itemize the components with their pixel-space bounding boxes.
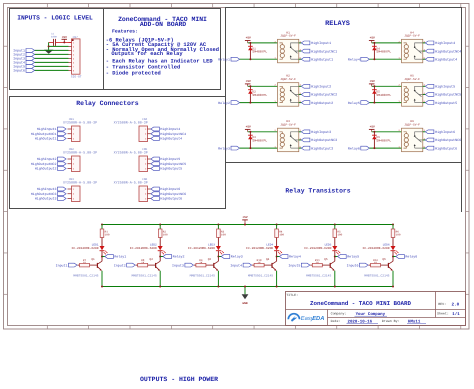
junction bottom rail unit 2 (159, 286, 161, 288)
svg-text:Relay6: Relay6 (348, 146, 360, 150)
svg-text:SM4007PL: SM4007PL (376, 138, 391, 142)
svg-text:100: 100 (105, 234, 110, 237)
wire Input5 port to R11 (310, 264, 312, 266)
junction +5V tap (63, 41, 65, 43)
junction diode D1 anode (249, 58, 251, 60)
pin 2 of CN3 (68, 193, 72, 195)
port HighInput2 (relay output) (301, 84, 310, 88)
wire +5V to relay K4 coil pin 2 (372, 42, 402, 44)
wire rail to resistor R1 (101, 225, 103, 230)
diode D1 SM4007PL (249, 43, 251, 59)
pin 2 of CN1 (68, 133, 72, 135)
wire node to Relay5 port (335, 256, 338, 258)
svg-text:HighOutputNC2: HighOutputNC2 (31, 162, 57, 166)
svg-text:ZoneCommand - TACO MINI BOARD: ZoneCommand - TACO MINI BOARD (310, 300, 411, 307)
svg-text:HighOutput2: HighOutput2 (311, 101, 333, 106)
port HighInput6 (relay output) (425, 130, 434, 134)
svg-text:Input4: Input4 (230, 263, 242, 267)
junction collector node 3 (217, 256, 219, 258)
title block frame (286, 292, 466, 326)
wire node to Relay3 port (218, 256, 221, 258)
wire relay K6 to HighInput6 (423, 131, 426, 133)
wire resistor R3 to LED3 (217, 238, 219, 247)
pin 2 of CN2 (68, 163, 72, 165)
pin 1 of CN1 (68, 128, 72, 130)
wire node to Relay4 port (277, 256, 280, 258)
svg-text:MMBT5501_C2145: MMBT5501_C2145 (248, 275, 273, 278)
svg-text:XY2500R-A-5.00-3P: XY2500R-A-5.00-3P (63, 120, 97, 125)
wire LED2 to collector node (159, 251, 161, 262)
wire emitter Q6 to ground rail (392, 271, 394, 287)
svg-text:+5V: +5V (370, 37, 375, 40)
wire CN7 pin2 to ground (49, 45, 69, 47)
junction diode D3 cathode (249, 131, 251, 133)
wire emitter Q2 to ground rail (159, 271, 161, 287)
svg-text:Relay5: Relay5 (348, 101, 360, 105)
port HighOutput5 (to CN5) (151, 167, 160, 171)
svg-text:HighOutput5: HighOutput5 (435, 101, 457, 106)
junction collector node 1 (101, 256, 103, 258)
svg-text:1/1: 1/1 (452, 312, 460, 317)
svg-text:Q5: Q5 (324, 258, 328, 261)
resistor R5 100 (333, 229, 337, 238)
port HighInput3 (relay output) (301, 130, 310, 134)
junction diode D4 cathode (373, 42, 375, 44)
svg-text:100: 100 (221, 234, 226, 237)
wire +5V to relay K5 coil pin 2 (372, 85, 402, 87)
svg-text:TITLE:: TITLE: (286, 293, 298, 297)
junction diode D6 cathode (373, 131, 375, 133)
svg-text:JQ1P-5V-F: JQ1P-5V-F (404, 34, 420, 37)
port HighInput5 (relay output) (425, 84, 434, 88)
wire Input3 port to R9 (194, 264, 196, 266)
wire ground bottom rail (102, 286, 393, 288)
svg-text:Relay Transistors: Relay Transistors (285, 187, 350, 194)
port Relay5 (transistor output) (338, 255, 347, 259)
svg-text:HighOutputNC6: HighOutputNC6 (435, 138, 461, 143)
wire LED6 to collector node (392, 251, 394, 262)
wire relay K2 to HighOutputNC2 (299, 93, 302, 95)
svg-text:HighOutputNC1: HighOutputNC1 (31, 132, 57, 136)
resistor R4 100 (275, 229, 279, 238)
port HighOutput4 (relay output) (425, 57, 434, 61)
wire R9 to base Q3 (206, 264, 214, 266)
port HighOutputNC6 (relay output) (425, 138, 434, 142)
ground GND (inputs box) (44, 50, 53, 54)
wire Input2 port to R8 (136, 264, 138, 266)
junction ground node (48, 45, 50, 47)
svg-text:Input3: Input3 (172, 263, 184, 267)
port HighInput6 (to CN6) (151, 187, 160, 191)
svg-text:HighInput1: HighInput1 (311, 41, 331, 46)
svg-text:Features:: Features: (112, 28, 138, 34)
junction collector node 5 (334, 256, 336, 258)
wire +5V to relay K2 coil pin 2 (248, 85, 278, 87)
box INPUTS - LOGIC LEVEL section (10, 9, 104, 90)
svg-text:Relay2: Relay2 (218, 101, 230, 105)
wire LED5 to collector node (334, 251, 336, 262)
svg-text:JQ1P-5V-F: JQ1P-5V-F (280, 78, 296, 81)
svg-text:OUTPUTS - HIGH POWER: OUTPUTS - HIGH POWER (140, 376, 218, 383)
pin 2 of CN4 (148, 133, 151, 135)
port Relay1 (transistor output) (105, 255, 114, 259)
port HighOutputNC5 (relay output) (425, 93, 434, 97)
svg-text:HighOutputNC2: HighOutputNC2 (311, 93, 337, 98)
wire emitter Q3 to ground rail (217, 271, 219, 287)
pin 2 of CN5 (148, 163, 151, 165)
svg-text:ADD-ON BOARD: ADD-ON BOARD (140, 21, 186, 28)
wire R12 to base Q6 (381, 264, 389, 266)
junction top rail unit 6 (392, 224, 394, 226)
wire rail to resistor R6 (392, 225, 394, 230)
wire Relay6 port to relay K6 coil pin 1 (369, 147, 401, 149)
wire R7 to base Q1 (90, 264, 98, 266)
wire Input4 to CN7 pin6 (35, 61, 69, 63)
wire rail to resistor R4 (276, 225, 278, 230)
svg-text:HighOutputNC1: HighOutputNC1 (311, 49, 337, 54)
wire capacitor to ground bend (49, 41, 54, 43)
junction diode D6 anode (373, 147, 375, 149)
svg-text:HighOutput3: HighOutput3 (311, 146, 333, 151)
svg-text:HighOutputNC4: HighOutputNC4 (435, 49, 461, 54)
svg-text:XY2500R-A-5.00-3P: XY2500R-A-5.00-3P (63, 180, 97, 185)
junction top rail unit 4 (276, 224, 278, 226)
port HighOutput3 (relay output) (301, 146, 310, 150)
port HighInput4 (relay output) (425, 41, 434, 45)
port HighOutput6 (relay output) (425, 146, 434, 150)
junction collector node 6 (392, 256, 394, 258)
title block logo EasyEDA (288, 314, 324, 323)
svg-text:- Diode protected: - Diode protected (106, 70, 161, 76)
junction diode D2 anode (249, 102, 251, 104)
svg-text:SM4007PL: SM4007PL (252, 93, 267, 97)
wire relay K2 to HighOutput2 (299, 102, 302, 104)
wire rail to resistor R2 (159, 225, 161, 230)
svg-text:XY2500R-A-5.00-3P: XY2500R-A-5.00-3P (114, 180, 148, 185)
wire resistor R2 to LED2 (159, 238, 161, 247)
svg-text:MMBT5501_C2145: MMBT5501_C2145 (364, 275, 389, 278)
junction collector node 4 (276, 256, 278, 258)
svg-text:REV:: REV: (438, 302, 446, 306)
wire emitter Q5 to ground rail (334, 271, 336, 287)
box Relay Connectors section (10, 97, 226, 209)
svg-text:+5V: +5V (370, 80, 375, 83)
svg-text:HighInput3: HighInput3 (37, 187, 57, 191)
svg-text:EDA: EDA (312, 316, 324, 322)
port Relay6 (transistor output) (396, 255, 405, 259)
port HighOutput2 (relay output) (301, 101, 310, 105)
wire Relay1 port to relay K1 coil pin 1 (240, 58, 278, 60)
junction collector node 2 (159, 256, 161, 258)
svg-text:RELAYS: RELAYS (325, 20, 350, 28)
svg-text:HighInput3: HighInput3 (311, 130, 331, 135)
svg-text:MMBT5501_C2145: MMBT5501_C2145 (131, 275, 156, 278)
svg-text:HighOutputNC4: HighOutputNC4 (160, 132, 186, 136)
svg-text:MMBT5501_C2145: MMBT5501_C2145 (306, 275, 331, 278)
pin 1 of CN5 (148, 158, 151, 160)
wire relay K2 to HighInput2 (299, 85, 302, 87)
wire LED3 to collector node (217, 251, 219, 262)
wire resistor R6 to LED6 (392, 238, 394, 247)
port HighOutput6 (to CN6) (151, 197, 160, 201)
svg-text:Outputs for each Relay: Outputs for each Relay (111, 51, 183, 57)
svg-text:FC-2012HRK-620D: FC-2012HRK-620D (246, 247, 273, 250)
port HighOutput5 (relay output) (425, 101, 434, 105)
svg-text:Relay3: Relay3 (218, 146, 230, 150)
wire Relay3 port to relay K3 coil pin 1 (240, 147, 278, 149)
svg-text:Relay Connectors: Relay Connectors (76, 100, 139, 107)
wire resistor R5 to LED5 (334, 238, 336, 247)
svg-text:HighInput2: HighInput2 (37, 157, 57, 161)
svg-text:+5V: +5V (370, 126, 375, 129)
svg-text:Relay5: Relay5 (347, 255, 359, 259)
svg-text:Q6: Q6 (382, 258, 386, 261)
pin 1 of CN4 (148, 128, 151, 130)
wire relay K4 to HighInput4 (423, 42, 426, 44)
svg-text:HighOutputNC5: HighOutputNC5 (160, 162, 186, 166)
svg-text:XY2500R-A-5.00-3P: XY2500R-A-5.00-3P (114, 150, 148, 155)
port Relay3 (transistor output) (221, 255, 230, 259)
svg-text:JQ1P-5V-F: JQ1P-5V-F (280, 34, 296, 37)
svg-text:SM4007PL: SM4007PL (376, 93, 391, 97)
svg-text:Input6: Input6 (13, 69, 25, 73)
svg-text:100: 100 (337, 234, 342, 237)
svg-text:CN7: CN7 (73, 36, 78, 39)
wire relay K1 to HighOutputNC1 (299, 50, 302, 52)
port HighInput1 (relay output) (301, 41, 310, 45)
junction top rail unit 3 (217, 224, 219, 226)
wire relay K1 to HighInput1 (299, 42, 302, 44)
wire Input6 to CN7 pin8 (35, 69, 69, 71)
svg-text:SIG-8T: SIG-8T (71, 76, 82, 79)
junction top rail unit 5 (334, 224, 336, 226)
wire Input1 port to R7 (78, 264, 80, 266)
pin 2 of CN6 (148, 193, 151, 195)
svg-text:HighInput4: HighInput4 (435, 41, 455, 46)
wire relay K6 to HighOutputNC6 (423, 139, 426, 141)
pin 3 of CN5 (148, 168, 151, 170)
svg-text:JQ1P-5V-F: JQ1P-5V-F (404, 123, 420, 126)
svg-text:FC-2012HRK-620D: FC-2012HRK-620D (188, 247, 215, 250)
wire Input2 to CN7 pin4 (35, 53, 69, 55)
svg-text:GND: GND (242, 302, 247, 305)
svg-text:Relay1: Relay1 (218, 57, 230, 61)
wire Input5 to CN7 pin7 (35, 65, 69, 67)
diode D6 SM4007PL (373, 132, 375, 148)
wire +5V to relay K6 coil pin 2 (372, 131, 402, 133)
svg-text:Q1: Q1 (91, 258, 95, 261)
svg-text:HighInput2: HighInput2 (311, 85, 331, 90)
wire +5V top rail (102, 224, 393, 226)
svg-text:Input1: Input1 (56, 263, 68, 267)
svg-text:Q3: Q3 (208, 258, 212, 261)
port Relay4 (transistor output) (279, 255, 288, 259)
diode D2 SM4007PL (249, 86, 251, 102)
svg-text:FC-2012HRK-620D: FC-2012HRK-620D (363, 247, 390, 250)
wire +5V to relay K1 coil pin 2 (248, 42, 278, 44)
svg-text:Sheet:: Sheet: (437, 311, 449, 315)
wire relay K5 to HighInput5 (423, 85, 426, 87)
svg-text:+5V: +5V (62, 36, 67, 39)
svg-text:100: 100 (279, 234, 284, 237)
pin 1 of CN6 (148, 188, 151, 190)
wire relay K5 to HighOutput5 (423, 102, 426, 104)
svg-text:HighInput5: HighInput5 (435, 85, 455, 90)
svg-text:100: 100 (163, 234, 168, 237)
svg-text:XY2500R-A-5.00-3P: XY2500R-A-5.00-3P (114, 120, 148, 125)
junction diode D4 anode (373, 58, 375, 60)
svg-text:FC-2012HRK-620D: FC-2012HRK-620D (130, 247, 157, 250)
junction top rail unit 1 (101, 224, 103, 226)
svg-text:Input5: Input5 (288, 263, 300, 267)
svg-text:Relay6: Relay6 (405, 255, 417, 259)
wire rail to GND (244, 287, 246, 295)
svg-text:Relay4: Relay4 (289, 255, 301, 259)
svg-text:HighInput5: HighInput5 (160, 157, 180, 161)
svg-text:HighOutput1: HighOutput1 (311, 57, 333, 62)
svg-text:INPUTS - LOGIC LEVEL: INPUTS - LOGIC LEVEL (17, 14, 93, 21)
wire relay K6 to HighOutput6 (423, 147, 426, 149)
box Relay Transistors section (225, 163, 227, 209)
svg-text:+5V: +5V (246, 37, 251, 40)
wire node to Relay2 port (160, 256, 163, 258)
svg-text:SM4007PL: SM4007PL (252, 50, 267, 54)
pin 1 of CN2 (68, 158, 72, 160)
junction bottom rail unit 5 (334, 286, 336, 288)
svg-text:Relay3: Relay3 (231, 255, 243, 259)
resistor R6 100 (391, 229, 395, 238)
junction top rail unit 2 (159, 224, 161, 226)
wire Relay5 port to relay K5 coil pin 1 (369, 102, 401, 104)
svg-text:MMBT5501_C2145: MMBT5501_C2145 (73, 275, 98, 278)
svg-text:Input6: Input6 (347, 263, 359, 267)
wire relay K3 to HighOutputNC3 (299, 139, 302, 141)
svg-text:Input2: Input2 (114, 263, 126, 267)
junction bottom rail unit 1 (101, 286, 103, 288)
port HighOutputNC4 (to CN4) (151, 132, 160, 136)
svg-text:HighOutput2: HighOutput2 (35, 167, 57, 171)
wire R10 to base Q4 (264, 264, 272, 266)
wire resistor R4 to LED4 (276, 238, 278, 247)
port HighOutputNC5 (to CN5) (151, 162, 160, 166)
port HighOutputNC1 (relay output) (301, 49, 310, 53)
resistor R2 100 (158, 229, 162, 238)
wire relay K5 to HighOutputNC5 (423, 93, 426, 95)
wire R8 to base Q2 (148, 264, 156, 266)
svg-text:+5V: +5V (242, 216, 247, 219)
wire Input1 to CN7 pin3 (35, 49, 69, 51)
svg-text:+5V: +5V (246, 80, 251, 83)
junction bottom rail unit 6 (392, 286, 394, 288)
pin 3 of CN4 (148, 138, 151, 140)
wire LED1 to collector node (101, 251, 103, 262)
wire R11 to base Q5 (322, 264, 330, 266)
svg-text:HighOutputNC3: HighOutputNC3 (31, 192, 57, 196)
svg-text:HighOutput1: HighOutput1 (35, 137, 57, 141)
svg-text:HighOutput4: HighOutput4 (160, 137, 182, 141)
wire Input6 port to R12 (369, 264, 371, 266)
svg-text:Q4: Q4 (266, 258, 270, 261)
svg-text:Q2: Q2 (150, 258, 154, 261)
diode D4 SM4007PL (373, 43, 375, 59)
svg-text:2.0: 2.0 (452, 302, 460, 307)
wire LED4 to collector node (276, 251, 278, 262)
wire relay K3 to HighInput3 (299, 131, 302, 133)
wire emitter Q1 to ground rail (101, 271, 103, 287)
pin 3 of CN2 (68, 168, 72, 170)
junction bottom rail unit 4 (276, 286, 278, 288)
svg-text:JQ1P-5V-F: JQ1P-5V-F (280, 123, 296, 126)
port Relay2 (transistor output) (163, 255, 172, 259)
svg-text:SM4007PL: SM4007PL (376, 50, 391, 54)
wire rail to resistor R3 (217, 225, 219, 230)
port HighOutput4 (to CN4) (151, 137, 160, 141)
svg-text:SM4007PL: SM4007PL (252, 138, 267, 142)
wire Input3 to CN7 pin5 (35, 57, 69, 59)
svg-text:HighOutput3: HighOutput3 (35, 197, 57, 201)
wire relay K3 to HighOutput3 (299, 147, 302, 149)
resistor R3 100 (217, 229, 221, 238)
svg-text:HighOutput4: HighOutput4 (435, 57, 457, 62)
junction diode D3 anode (249, 147, 251, 149)
svg-text:XY2500R-A-5.00-3P: XY2500R-A-5.00-3P (63, 150, 97, 155)
svg-text:HighOutput6: HighOutput6 (160, 197, 182, 201)
svg-text:HighOutput5: HighOutput5 (160, 167, 182, 171)
port HighOutputNC3 (relay output) (301, 138, 310, 142)
wire Relay4 port to relay K4 coil pin 1 (369, 58, 401, 60)
wire rail to resistor R5 (334, 225, 336, 230)
svg-text:HighOutputNC5: HighOutputNC5 (435, 93, 461, 98)
wire emitter Q4 to ground rail (276, 271, 278, 287)
junction bottom rail unit 3 (217, 286, 219, 288)
svg-text:100n: 100n (51, 35, 58, 38)
svg-text:100: 100 (396, 234, 401, 237)
svg-text:+5V: +5V (246, 126, 251, 129)
junction diode D5 anode (373, 102, 375, 104)
port HighOutput1 (relay output) (301, 57, 310, 61)
diode D3 SM4007PL (249, 132, 251, 148)
junction +5V rail tap (244, 224, 246, 226)
port HighOutputNC2 (relay output) (301, 93, 310, 97)
wire relay K4 to HighOutput4 (423, 58, 426, 60)
wire node to Relay1 port (102, 256, 105, 258)
svg-text:HighOutput6: HighOutput6 (435, 146, 457, 151)
svg-text:HighOutputNC6: HighOutputNC6 (160, 192, 186, 196)
svg-text:Relay2: Relay2 (173, 255, 185, 259)
box ZoneCommand notes section (104, 9, 221, 90)
svg-text:Drawn By:: Drawn By: (382, 319, 400, 323)
port HighOutputNC4 (relay output) (425, 49, 434, 53)
svg-text:HighInput6: HighInput6 (435, 130, 455, 135)
wire relay K1 to HighOutput1 (299, 58, 302, 60)
wire resistor R1 to LED1 (101, 238, 103, 247)
port HighInput5 (to CN5) (151, 157, 160, 161)
svg-text:HighInput6: HighInput6 (160, 187, 180, 191)
pin 3 of CN1 (68, 138, 72, 140)
junction diode D1 cathode (249, 42, 251, 44)
wire +5V rail to CN7 pin1 (56, 41, 72, 43)
ground GND (transistor rail) (242, 294, 249, 299)
svg-text:Date:: Date: (331, 319, 341, 323)
pin 3 of CN6 (148, 198, 151, 200)
pin 3 of CN3 (68, 198, 72, 200)
port HighInput4 (to CN4) (151, 127, 160, 131)
box RELAYS section (226, 8, 462, 163)
wire relay K4 to HighOutputNC4 (423, 50, 426, 52)
svg-text:JQ1P-5V-F: JQ1P-5V-F (404, 78, 420, 81)
svg-text:Relay4: Relay4 (348, 57, 360, 61)
junction diode D5 cathode (373, 85, 375, 87)
